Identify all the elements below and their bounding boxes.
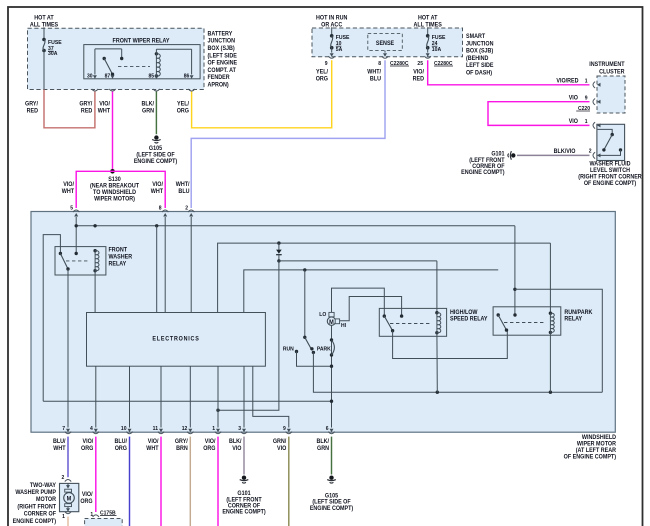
wire VIO/WHT S130 to pin5 [76, 171, 112, 208]
svg-text:HIGH/LOW: HIGH/LOW [450, 310, 478, 316]
park cam contact [330, 338, 333, 341]
svg-text:30: 30 [87, 73, 93, 79]
svg-text:ELECTRONICS: ELECTRONICS [152, 336, 199, 342]
bus branch to electronics [156, 226, 158, 313]
svg-text:TO WINDSHIELD: TO WINDSHIELD [93, 190, 136, 196]
node run/park pivot branch [303, 268, 306, 271]
run/park relay coil [549, 312, 552, 315]
svg-text:VIO: VIO [277, 446, 287, 452]
SENSE box [368, 33, 403, 50]
ground G105 (bottom) [329, 476, 333, 480]
diode D1 [277, 241, 280, 244]
wire VIO/RED fuse24 to cluster pin1 [428, 60, 590, 85]
svg-text:OF DASH): OF DASH) [466, 70, 492, 76]
wire VIO/WHT relay pin87 to S130 [112, 92, 114, 172]
run/park switch [303, 336, 306, 339]
wire diode branch to pin1 node [218, 261, 279, 410]
svg-text:LO: LO [319, 312, 326, 318]
high/low dashed link [390, 323, 431, 325]
wiper motor M [327, 317, 335, 325]
svg-text:9: 9 [283, 426, 286, 432]
svg-text:FRONT WIPER RELAY: FRONT WIPER RELAY [113, 38, 170, 44]
svg-text:ENGINE COMPT): ENGINE COMPT) [134, 159, 177, 165]
svg-text:ENGINE COMPT): ENGINE COMPT) [310, 506, 353, 512]
svg-text:BLK/VIO: BLK/VIO [554, 149, 576, 155]
wire electronics to run/park line [244, 270, 498, 313]
svg-text:ORG: ORG [316, 76, 329, 82]
svg-text:VIO: VIO [232, 446, 242, 452]
bus branch down right [514, 226, 516, 315]
wire high/low coil to park bus [436, 333, 438, 393]
svg-text:10: 10 [121, 426, 127, 432]
pin 2 entry [188, 210, 194, 212]
SENSE pin [384, 51, 386, 53]
svg-text:BOX (SJB): BOX (SJB) [208, 46, 235, 52]
svg-text:2: 2 [185, 205, 188, 211]
windshield wiper motor box [31, 212, 615, 433]
svg-text:85: 85 [149, 73, 155, 79]
wire run/park coil to park bus [549, 332, 551, 392]
wire run/park coil feed [549, 243, 551, 313]
wire bus to park return [515, 289, 602, 392]
svg-text:LEVEL SWITCH: LEVEL SWITCH [590, 168, 630, 174]
svg-text:HOT AT: HOT AT [418, 15, 438, 21]
svg-text:4: 4 [90, 426, 93, 432]
wire BLK/VIO washer switch pin2 to G101 [517, 154, 590, 156]
svg-text:VIO/: VIO/ [83, 439, 94, 445]
svg-text:RELAY: RELAY [109, 261, 127, 267]
svg-text:G101: G101 [491, 151, 505, 157]
wire fuse37 feed [43, 27, 45, 39]
svg-text:(BEHIND: (BEHIND [466, 56, 488, 62]
svg-text:FRONT: FRONT [109, 247, 128, 253]
wire motor LO to high/low relay [332, 288, 385, 316]
pin 8 entry [162, 210, 168, 212]
front washer relay box [55, 247, 106, 275]
wire VIO/WHT S130 to pin8 [113, 171, 166, 208]
svg-text:GRY/: GRY/ [79, 101, 92, 107]
ground G101 (bottom) [242, 476, 246, 480]
svg-text:WHT/: WHT/ [176, 182, 190, 188]
svg-text:VIO/: VIO/ [148, 439, 159, 445]
svg-text:GRY/: GRY/ [175, 439, 188, 445]
svg-text:WHT: WHT [62, 189, 75, 195]
svg-text:ORG: ORG [80, 499, 93, 505]
svg-text:GRN: GRN [317, 446, 329, 452]
front wiper relay switch [94, 49, 96, 75]
svg-text:12: 12 [182, 426, 188, 432]
svg-text:BLU: BLU [370, 76, 381, 82]
svg-text:WHT: WHT [98, 108, 111, 114]
svg-text:GRN/: GRN/ [273, 439, 287, 445]
svg-text:M: M [67, 496, 72, 502]
svg-text:(RIGHT FRONT CORNER: (RIGHT FRONT CORNER [578, 174, 642, 180]
wire fuse10 feed [331, 27, 333, 36]
svg-text:OF ENGINE COMPT): OF ENGINE COMPT) [564, 454, 616, 460]
svg-text:FENDER: FENDER [208, 75, 231, 81]
wire GRY/RED fuse37 to relay pin30 [44, 90, 95, 128]
svg-text:VIO/: VIO/ [205, 439, 216, 445]
front washer relay dashed link [66, 260, 90, 262]
svg-text:CORNER OF: CORNER OF [24, 511, 57, 517]
svg-text:WASHER: WASHER [109, 254, 133, 260]
svg-text:9: 9 [585, 95, 588, 101]
svg-text:ENGINE COMPT): ENGINE COMPT) [461, 170, 504, 176]
svg-text:(AT LEFT REAR: (AT LEFT REAR [576, 448, 617, 454]
svg-text:1: 1 [212, 426, 215, 432]
switch internals [598, 129, 613, 134]
svg-text:8: 8 [378, 61, 381, 67]
svg-text:8: 8 [159, 205, 162, 211]
svg-text:INSTRUMENT: INSTRUMENT [589, 62, 625, 68]
svg-text:VIO/: VIO/ [413, 69, 424, 75]
svg-text:RELAY: RELAY [564, 316, 582, 322]
svg-text:9: 9 [325, 61, 328, 67]
svg-text:VIO/RED: VIO/RED [556, 78, 578, 84]
high/low speed relay box [379, 308, 446, 336]
svg-text:BLU/: BLU/ [53, 439, 66, 445]
svg-text:JUNCTION: JUNCTION [208, 38, 236, 44]
svg-text:PARK: PARK [317, 346, 331, 352]
electronics pin wires to bottom [95, 366, 97, 427]
wire VIO cluster pin9 to washer switch pin1 [488, 102, 590, 126]
relay dashed link [118, 65, 150, 67]
svg-text:BLK/: BLK/ [141, 101, 154, 107]
svg-text:WIPER MOTOR: WIPER MOTOR [577, 441, 617, 447]
svg-text:ORG: ORG [203, 446, 216, 452]
smart junction box (SJB) outline [312, 28, 463, 57]
wire NAT washer pump to bottom [67, 517, 69, 526]
svg-text:ORG: ORG [177, 108, 190, 114]
svg-text:LEFT SIDE: LEFT SIDE [466, 63, 494, 69]
svg-text:RED: RED [81, 108, 92, 114]
svg-text:M: M [329, 320, 334, 326]
svg-text:7: 7 [62, 426, 65, 432]
svg-text:ENGINE COMPT): ENGINE COMPT) [222, 509, 265, 515]
svg-text:RED: RED [27, 108, 38, 114]
svg-text:5A: 5A [336, 47, 343, 53]
svg-text:86: 86 [184, 73, 190, 79]
wire motor armature down [331, 325, 333, 427]
svg-text:RED: RED [413, 76, 424, 82]
svg-text:ENGINE COMPT): ENGINE COMPT) [13, 519, 56, 525]
svg-text:(LEFT SIDE: (LEFT SIDE [208, 53, 237, 59]
svg-text:GRN: GRN [142, 108, 154, 114]
svg-text:OF ENGINE COMPT): OF ENGINE COMPT) [584, 181, 636, 187]
svg-text:APRON): APRON) [208, 82, 229, 88]
svg-text:ORG: ORG [115, 446, 128, 452]
svg-text:JUNCTION: JUNCTION [466, 41, 494, 47]
svg-text:YEL/: YEL/ [316, 69, 328, 75]
supply bus [76, 225, 515, 227]
svg-text:OF ENGINE: OF ENGINE [208, 60, 238, 66]
svg-text:RUN: RUN [283, 346, 294, 352]
svg-text:RUN/PARK: RUN/PARK [564, 310, 593, 316]
svg-text:COMPT. AT: COMPT. AT [208, 68, 237, 74]
svg-text:6: 6 [326, 426, 329, 432]
svg-text:TWO-WAY: TWO-WAY [30, 483, 56, 489]
bottom pin arrows [66, 429, 70, 433]
svg-text:CLUSTER: CLUSTER [599, 69, 625, 75]
run/park dashed link [504, 322, 545, 324]
svg-text:WHT: WHT [146, 446, 159, 452]
svg-text:HI: HI [341, 323, 346, 329]
svg-text:1: 1 [585, 78, 588, 84]
svg-text:HOT IN RUN: HOT IN RUN [316, 15, 347, 21]
ground G105 (top) [154, 135, 158, 139]
wire run contact to ground node [297, 352, 332, 367]
high/low relay switch [383, 314, 386, 317]
fuse 24 10A [426, 34, 430, 38]
wire YEL/ORG relay pin86 to SJB fuse10 [192, 60, 332, 128]
fuse 10 5A [330, 34, 334, 38]
wire fuse24 feed [427, 27, 429, 36]
svg-text:2: 2 [62, 475, 65, 481]
svg-text:SMART: SMART [466, 34, 486, 40]
wire diode to high/low coil [279, 260, 437, 262]
svg-text:5: 5 [70, 205, 73, 211]
svg-text:BLK/: BLK/ [229, 439, 242, 445]
svg-text:BATTERY: BATTERY [208, 31, 233, 37]
front washer relay coil [93, 249, 96, 252]
svg-text:VIO: VIO [569, 119, 579, 125]
front wiper relay coil [155, 52, 158, 55]
ground G101 (right) [511, 153, 515, 157]
front washer relay switch [43, 235, 60, 402]
svg-text:10A: 10A [432, 47, 441, 53]
svg-text:SPEED RELAY: SPEED RELAY [450, 316, 488, 322]
svg-text:WHT: WHT [53, 446, 66, 452]
svg-text:VIO/: VIO/ [82, 492, 93, 498]
svg-text:YEL/: YEL/ [177, 101, 189, 107]
svg-text:WIPER MOTOR): WIPER MOTOR) [94, 196, 135, 202]
svg-text:BOX (SJB): BOX (SJB) [466, 48, 493, 54]
high/low relay coil [435, 311, 438, 314]
svg-text:VIO: VIO [569, 95, 579, 101]
svg-text:WASHER FLUID: WASHER FLUID [590, 161, 631, 167]
svg-text:S130: S130 [108, 177, 121, 183]
svg-text:25: 25 [417, 61, 423, 67]
wire park contact to park bus [313, 352, 602, 392]
wire coil top to pin 86 [155, 49, 157, 54]
washer fluid level switch box [597, 124, 625, 160]
wire coil bottom to electronics [94, 271, 96, 313]
svg-text:VIO/: VIO/ [152, 182, 163, 188]
svg-text:BLU: BLU [178, 189, 189, 195]
svg-text:BRN: BRN [176, 446, 188, 452]
wire high/low common to run/park common [393, 330, 508, 358]
wire BLK/GRN relay pin85 to G105 [155, 92, 157, 135]
svg-text:WHT/: WHT/ [367, 69, 381, 75]
svg-text:1: 1 [585, 119, 588, 125]
wire switch to pin 7 [67, 269, 69, 428]
svg-text:WINDSHIELD: WINDSHIELD [582, 435, 616, 441]
run/park relay switch [497, 313, 500, 316]
svg-text:VIO/: VIO/ [63, 182, 74, 188]
wire electronics to diode line [218, 243, 551, 312]
svg-text:MOTOR: MOTOR [36, 497, 57, 503]
svg-text:30A: 30A [48, 51, 57, 57]
run/park relay box [493, 307, 561, 335]
fuse 37 30A [42, 38, 46, 42]
svg-text:WASHER PUMP: WASHER PUMP [15, 490, 56, 496]
svg-text:87: 87 [105, 73, 111, 79]
svg-text:11: 11 [153, 426, 158, 432]
svg-text:(RIGHT FRONT: (RIGHT FRONT [17, 504, 56, 510]
svg-text:WHT: WHT [151, 189, 164, 195]
svg-text:1: 1 [62, 514, 65, 520]
wire WHT/BLU SENSE to pin2 [191, 60, 385, 208]
svg-text:(NEAR BREAKOUT: (NEAR BREAKOUT [90, 183, 139, 189]
svg-text:SENSE: SENSE [376, 41, 394, 47]
svg-text:2: 2 [589, 148, 592, 154]
electronics box [87, 313, 266, 367]
svg-text:BLU/: BLU/ [114, 439, 127, 445]
wire motor HI to high/low relay [340, 297, 402, 321]
pin 5 entry [73, 210, 79, 212]
splice S130 [110, 169, 115, 174]
svg-text:GRY/: GRY/ [25, 101, 38, 107]
ground bus left [43, 400, 331, 402]
wire fuse37 to box edge [43, 51, 45, 90]
svg-text:VIO/: VIO/ [99, 101, 110, 107]
instrument cluster box [597, 76, 625, 113]
svg-text:BLK/: BLK/ [316, 439, 329, 445]
battery junction box (BJB) outline [28, 28, 205, 89]
svg-text:3: 3 [238, 426, 241, 432]
svg-text:ORG: ORG [81, 446, 94, 452]
svg-text:HOT AT: HOT AT [34, 15, 54, 21]
